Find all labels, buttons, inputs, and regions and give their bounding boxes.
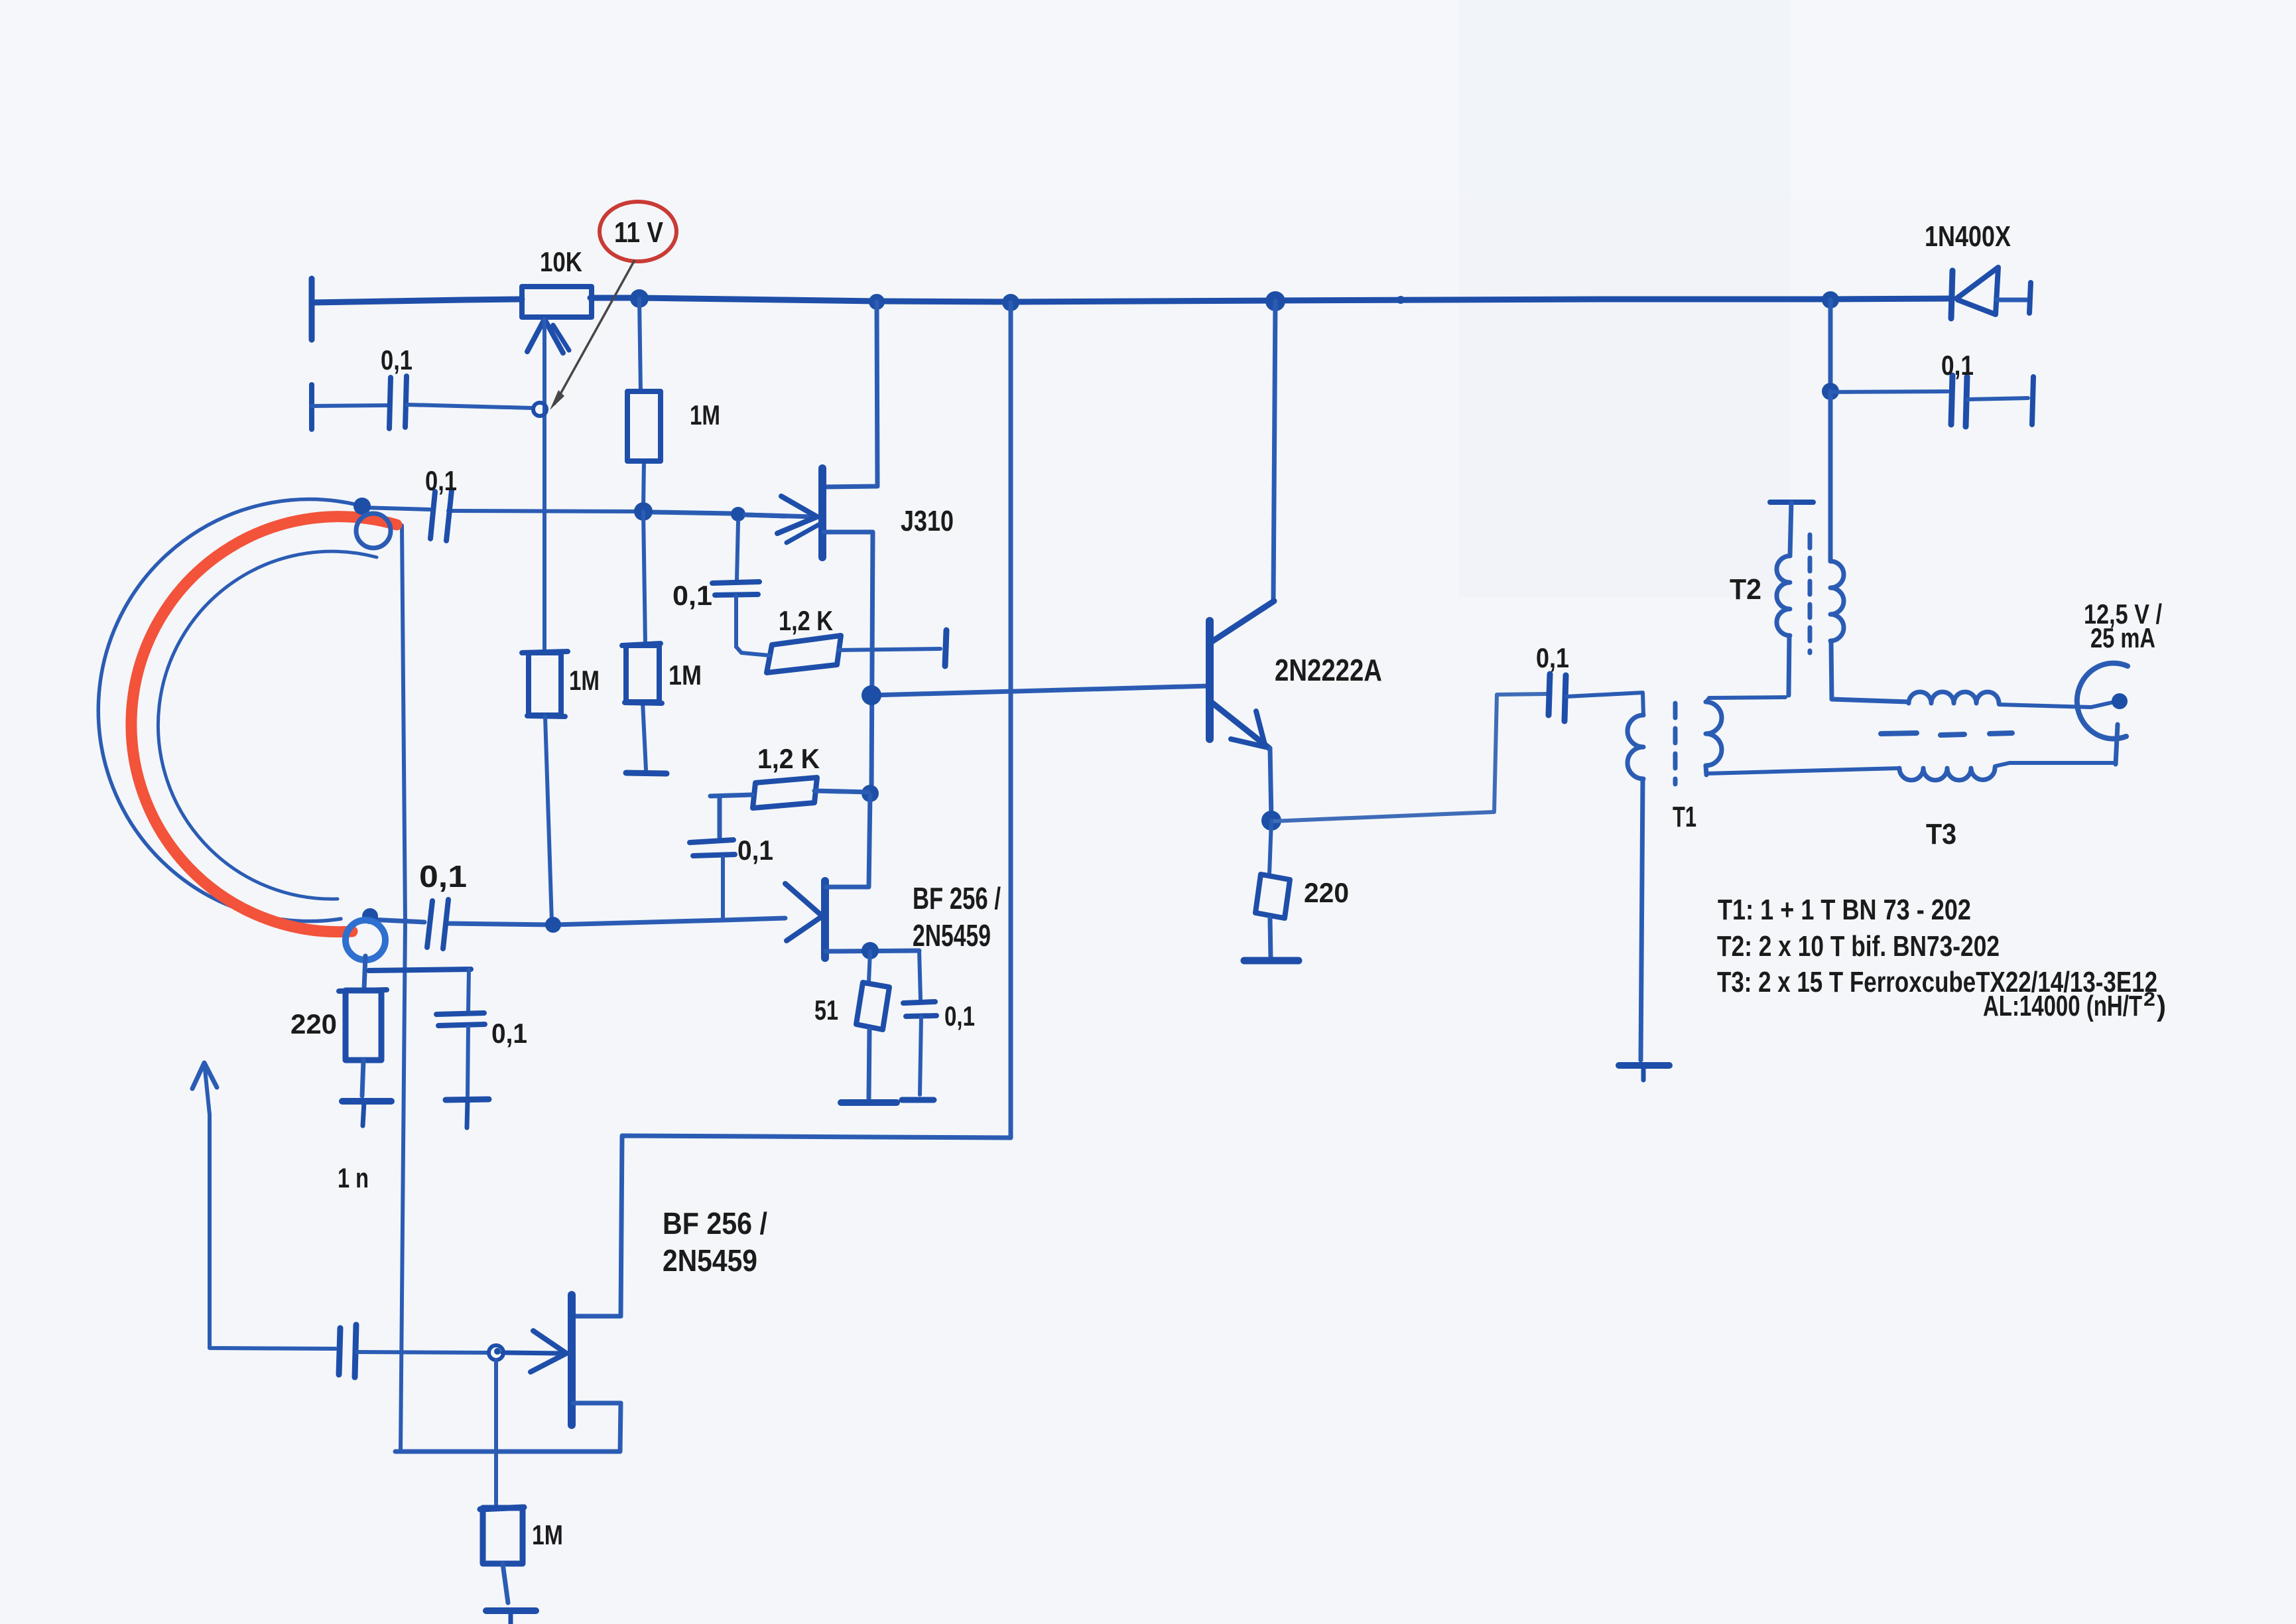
transistor 2N2222A collector lead bbox=[1211, 601, 1274, 642]
node: emitter junction bbox=[1261, 811, 1281, 831]
annotation circle 11 V bbox=[600, 202, 676, 261]
node: loop bottom end bbox=[362, 908, 378, 924]
resistor 1M from rail: body bbox=[627, 391, 661, 461]
transformer T3 core dashes bbox=[1881, 733, 1917, 734]
leads bbox=[814, 791, 868, 792]
wire bbox=[312, 405, 387, 406]
resistor 1,2 K lower: body bbox=[753, 778, 817, 808]
svg-text:0,1: 0,1 bbox=[672, 580, 712, 611]
wire down to T2 bbox=[1828, 391, 1833, 561]
svg-text:2N5459: 2N5459 bbox=[663, 1243, 757, 1278]
node on rail small mark bbox=[1397, 296, 1405, 304]
svg-text:1,2 K: 1,2 K bbox=[757, 743, 820, 774]
wire cap to T1 bbox=[1566, 693, 1643, 715]
wire to output bbox=[1999, 703, 2112, 707]
svg-text:T2: T2 bbox=[1730, 573, 1761, 606]
capacitor 0,1 at wiper tap: left tick bbox=[309, 385, 314, 429]
node: loop top end bbox=[353, 498, 371, 515]
svg-text:0,1: 0,1 bbox=[1941, 350, 1974, 381]
wire stub to bypass cap bbox=[369, 969, 471, 971]
capacitor 0,1 loop-top plates bbox=[430, 492, 435, 539]
transistor BF256 upper: gate arrow bbox=[785, 884, 822, 941]
gate node ring of lower BF256 bbox=[489, 1345, 503, 1360]
ground below 1M bbox=[486, 1607, 536, 1614]
node: lower 1,2 K junction bbox=[861, 785, 879, 802]
transformer T2 left winding bbox=[1777, 556, 1790, 636]
ground below 0,1 bbox=[902, 1097, 934, 1103]
emitter down to node bbox=[1270, 748, 1271, 819]
resistor 1M divider-to-ground: leads bbox=[643, 511, 645, 644]
transistor BF256 lower: channel bar bbox=[568, 1295, 576, 1425]
svg-text:10K: 10K bbox=[540, 246, 582, 277]
svg-text:0,1: 0,1 bbox=[381, 344, 413, 375]
wire: 1M down to lower gate wire bbox=[545, 716, 552, 922]
transformer T3 top winding bbox=[1909, 692, 1999, 703]
resistor 1M gate leak: body bbox=[480, 1507, 524, 1509]
loop top pigtail ring bbox=[356, 513, 391, 548]
loop antenna red highlight arc bbox=[131, 517, 397, 932]
node: J310 gate bbox=[731, 507, 745, 521]
transformer T1 core bbox=[1673, 703, 1678, 784]
transformer T2 right winding bbox=[1830, 561, 1844, 641]
transistor J310 source lead bbox=[824, 532, 873, 793]
svg-text:1N400X: 1N400X bbox=[1925, 220, 2011, 253]
wire: 2N2222A collector riser bbox=[1273, 301, 1275, 601]
leads bbox=[736, 647, 769, 655]
wire: wiper dropper bbox=[542, 319, 546, 653]
wire: top supply rail bbox=[312, 299, 522, 303]
svg-text:J310: J310 bbox=[901, 505, 954, 537]
capacitor 0,1 beside 220: lead bbox=[468, 969, 469, 1012]
svg-text:BF 256 /: BF 256 / bbox=[913, 881, 1001, 915]
capacitor 1 n plates bbox=[339, 1328, 340, 1375]
T2 right winding lead to T3 bbox=[1831, 641, 1909, 702]
transformer T2 core bbox=[1808, 535, 1813, 653]
svg-text:1M: 1M bbox=[690, 399, 720, 431]
capacitor 0,1 gate plates bbox=[712, 582, 759, 583]
transformer T2 open-end bar bbox=[1770, 500, 1813, 505]
transistor BF256 lower: source lead bbox=[573, 1401, 621, 1406]
resistor 1M divider-to-ground: body bbox=[622, 643, 661, 645]
T1 primary lead to ground bbox=[1641, 779, 1643, 1060]
svg-text:220: 220 bbox=[1304, 877, 1349, 908]
svg-text:1M: 1M bbox=[569, 665, 600, 696]
node: rail left end tick bbox=[309, 279, 315, 340]
capacitor 0,1 wiper-tap plates bbox=[389, 377, 391, 429]
node on rail at long dropper bbox=[1002, 294, 1019, 311]
diode 1N400X cathode bar bbox=[1951, 271, 1952, 318]
transistor J310 gate arrow bbox=[745, 515, 813, 517]
resistor 220 loop return: lead from ring bbox=[364, 956, 365, 989]
svg-text:T1: 1 + 1 T BN 73 - 202: T1: 1 + 1 T BN 73 - 202 bbox=[1718, 894, 1971, 926]
annotation arrow from 11 V to wiper tap bbox=[554, 260, 635, 405]
svg-text:T2: 2 x 10 T bif. BN73-202: T2: 2 x 10 T bif. BN73-202 bbox=[1717, 930, 2000, 963]
lead down bbox=[362, 1060, 363, 1096]
svg-text:2N2222A: 2N2222A bbox=[1275, 653, 1382, 687]
lead down bbox=[869, 1030, 869, 1099]
node on rail at 2N2222A collector bbox=[1265, 291, 1285, 311]
svg-text:11 V: 11 V bbox=[614, 216, 664, 249]
wire: J310 drain riser bbox=[824, 302, 877, 487]
ground below divider 1M bbox=[626, 773, 667, 774]
resistor 1,2 K upper: body bbox=[767, 636, 841, 673]
ground below 0,1 bbox=[446, 1099, 489, 1100]
wire to output lower bbox=[1995, 763, 2113, 766]
wire: lower gate wire from loop to BF256 bbox=[370, 919, 424, 922]
wire: T1 secondary bottom to T3 lower bbox=[1707, 768, 1899, 774]
svg-text:1,2 K: 1,2 K bbox=[779, 605, 833, 636]
node: gate-divider junction bbox=[634, 502, 653, 521]
T2 left winding stem bbox=[1790, 502, 1791, 556]
wire to gate bbox=[357, 1352, 488, 1353]
svg-text:220: 220 bbox=[290, 1008, 337, 1040]
capacitor 0,1 supply bypass plates bbox=[1951, 375, 1952, 425]
node on lower gate wire bbox=[545, 917, 561, 933]
resistor 220 loop return: body bbox=[339, 990, 387, 991]
plates bbox=[903, 1002, 935, 1003]
transformer T1 secondary winding bbox=[1706, 702, 1722, 766]
svg-text:T3: T3 bbox=[1926, 818, 1956, 850]
loop bottom pigtail ring bbox=[346, 920, 385, 960]
output connector center dot bbox=[2112, 693, 2128, 709]
svg-text:25 mA: 25 mA bbox=[2090, 622, 2155, 653]
svg-text:1 n: 1 n bbox=[338, 1162, 369, 1193]
ground below T1 bbox=[1619, 1062, 1669, 1069]
transformer T3 bottom winding bbox=[1899, 768, 1995, 780]
corner down to 0,1 bbox=[718, 796, 722, 837]
wire to 0,1 bbox=[1830, 391, 1948, 392]
node: source of BF256 bbox=[861, 942, 879, 959]
ground below 220 bbox=[342, 1098, 391, 1105]
loop antenna outer arc bbox=[98, 500, 360, 921]
svg-text:2: 2 bbox=[2143, 988, 2155, 1010]
transistor BF256 upper: channel bar bbox=[821, 881, 829, 958]
terminal tick of 1,2 K bbox=[945, 630, 946, 666]
wire: long dropper from rail down to lower stage bbox=[621, 303, 1011, 1316]
capacitor 0,1 below 1,2 K: plates bbox=[690, 840, 733, 843]
wire: source follower output line bbox=[395, 1403, 621, 1452]
diode end tick bbox=[2029, 283, 2031, 313]
capacitor 0,1 loop-bottom plates bbox=[427, 901, 432, 947]
svg-text:1M: 1M bbox=[532, 1519, 563, 1550]
svg-text:2N5459: 2N5459 bbox=[913, 918, 991, 953]
svg-text:): ) bbox=[2157, 990, 2166, 1022]
resistor 1M from rail: leads bbox=[639, 299, 641, 391]
svg-text:1M: 1M bbox=[669, 659, 702, 691]
resistor 1M wiper leg: body bbox=[522, 651, 568, 653]
lead down bbox=[1270, 918, 1271, 958]
T2 left winding lead down bbox=[1789, 636, 1789, 695]
svg-text:51: 51 bbox=[814, 994, 838, 1026]
lead down bbox=[503, 1564, 508, 1603]
resistor 1M gate leak: lead bbox=[494, 1360, 498, 1506]
source lead bbox=[826, 951, 919, 951]
lead down bbox=[734, 596, 738, 647]
svg-text:0,1: 0,1 bbox=[425, 465, 457, 496]
emitter arrowhead bbox=[1231, 711, 1265, 747]
node: J310 source / base junction bbox=[861, 685, 881, 705]
svg-text:0,1: 0,1 bbox=[944, 1000, 975, 1032]
loop antenna inner arc bbox=[158, 551, 377, 899]
transistor J310 channel bar bbox=[818, 468, 826, 557]
output connector arc bbox=[2077, 663, 2128, 739]
svg-text:0,1: 0,1 bbox=[1536, 642, 1569, 673]
diode right lead bbox=[1997, 298, 2027, 303]
capacitor 0,1 source bypass: lead bbox=[919, 951, 921, 999]
transistor 2N2222A base bar bbox=[1206, 621, 1214, 739]
transistor 2N2222A emitter lead bbox=[1211, 702, 1269, 748]
svg-text:AL:14000 (nH/T: AL:14000 (nH/T bbox=[1983, 990, 2142, 1022]
svg-text:0,1: 0,1 bbox=[419, 859, 467, 894]
wire: branch down from rail bbox=[1828, 300, 1833, 391]
resistor 220 emitter: body bbox=[1255, 874, 1290, 918]
output connector stem bbox=[2116, 724, 2118, 764]
potentiometer 10K body bbox=[522, 287, 592, 317]
svg-text:BF 256 /: BF 256 / bbox=[663, 1206, 767, 1241]
capacitor 0,1 emitter coupling plates bbox=[1549, 674, 1550, 715]
resistor 220 emitter: lead bbox=[1269, 821, 1271, 874]
lead down bbox=[920, 1017, 921, 1095]
node on rail at J310 drain bbox=[869, 294, 885, 310]
node on rail at 1M feed bbox=[630, 289, 649, 308]
lead to lower gate wire bbox=[721, 857, 725, 918]
drain lead up to 1,2 K node bbox=[826, 795, 870, 887]
svg-text:0,1: 0,1 bbox=[737, 835, 773, 866]
transistor BF256 lower: gate arrow bbox=[503, 1353, 561, 1353]
resistor 51: lead bbox=[869, 951, 870, 982]
svg-text:T1: T1 bbox=[1673, 801, 1696, 833]
resistor 51: body bbox=[856, 982, 889, 1030]
lead down bbox=[468, 1027, 468, 1096]
input arrow at bottom left bbox=[192, 1063, 217, 1089]
wiper tap junction ring bbox=[533, 403, 546, 416]
ground below 51 bbox=[841, 1099, 897, 1106]
wire: main antenna feed vertical bbox=[401, 525, 405, 1452]
diode 1N400X triangle bbox=[1956, 267, 1998, 314]
wire: emitter to coupling cap riser bbox=[1271, 694, 1547, 821]
node at 0,1 branch bbox=[1822, 383, 1839, 400]
wire: upper gate wire from loop to J310 bbox=[362, 507, 430, 509]
wire: T1 secondary top to T2 bbox=[1707, 697, 1785, 701]
capacitor 0,1 beside 220: plates bbox=[436, 1013, 484, 1014]
transistor BF256 lower: drain lead bbox=[573, 1314, 621, 1319]
svg-text:0,1: 0,1 bbox=[491, 1018, 527, 1049]
capacitor 0,1 gate-to-1,2K: lead bbox=[737, 521, 738, 580]
transformer T1 primary winding bbox=[1627, 715, 1643, 779]
right lead bbox=[1968, 398, 2028, 399]
end tick bbox=[2032, 377, 2033, 425]
node on rail at diode branch bbox=[1822, 291, 1839, 308]
ground below 220 bbox=[1244, 957, 1299, 965]
wire bbox=[407, 405, 532, 408]
wire: base wire J310 source to 2N2222A bbox=[871, 686, 1208, 695]
potentiometer 10K wiper arrow bbox=[527, 319, 563, 353]
